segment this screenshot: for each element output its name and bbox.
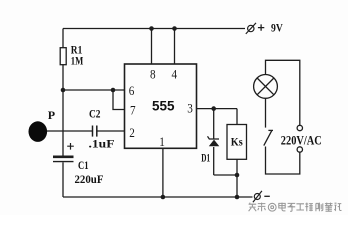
wire left vertical R1 branch xyxy=(62,29,64,49)
node pin8 top rail xyxy=(149,26,154,31)
microphone P xyxy=(29,121,48,142)
svg-text:6: 6 xyxy=(129,83,135,98)
wire pin4 xyxy=(174,29,176,65)
terminal +9V xyxy=(246,21,283,35)
watermark xyxy=(249,203,342,212)
wire D1 bottom lead xyxy=(213,147,215,175)
wire Ks top lead xyxy=(236,109,238,125)
wire lamp top xyxy=(266,60,300,125)
AC source terminal bottom xyxy=(297,147,302,152)
lamp xyxy=(254,75,278,99)
wire lamp bottom to switch xyxy=(265,98,267,127)
wire switch to AC loop bottom xyxy=(266,147,300,175)
node pin6 pin7 junction xyxy=(111,88,116,93)
wire pin3 xyxy=(197,108,238,110)
node R1 bottom junction xyxy=(61,88,66,93)
wire top +9V rail xyxy=(63,28,245,30)
wire C1 to bottom rail xyxy=(62,162,64,197)
resistor R1 xyxy=(60,48,66,65)
wire pin1 xyxy=(162,148,164,197)
relay contact switch xyxy=(264,130,273,145)
wire left vertical to C1 xyxy=(62,90,64,156)
node pin3 D1 junction xyxy=(211,106,216,111)
wire pin8 xyxy=(151,29,153,65)
svg-text:4: 4 xyxy=(172,67,178,82)
svg-text:P: P xyxy=(48,108,55,122)
wire Ks bottom lead xyxy=(236,159,238,175)
wire mic to C2 xyxy=(46,130,93,132)
relay coil Ks xyxy=(227,125,247,160)
node pin1 bottom rail xyxy=(161,195,166,200)
wire bottom rail xyxy=(63,196,253,198)
svg-text:C1: C1 xyxy=(78,158,89,172)
capacitor C2 xyxy=(93,126,97,137)
wire C2 to pin2 xyxy=(97,130,125,132)
svg-text:Ks: Ks xyxy=(231,135,243,149)
capacitor C1 xyxy=(53,157,74,162)
svg-text:C2: C2 xyxy=(89,106,101,120)
svg-text:555: 555 xyxy=(152,99,175,114)
AC source terminal top xyxy=(297,125,302,130)
svg-text:1: 1 xyxy=(159,134,165,149)
IC U1 555 timer xyxy=(125,64,197,148)
wire R1 bottom lead xyxy=(62,65,64,91)
node Ks bottom rail junction xyxy=(235,195,240,200)
svg-text:8: 8 xyxy=(150,67,156,82)
svg-text:220uF: 220uF xyxy=(75,172,104,186)
svg-text:2: 2 xyxy=(129,125,135,140)
wire pin6-pin7 link xyxy=(113,90,125,110)
terminal minus xyxy=(253,191,270,202)
node D1 Ks bottom junction xyxy=(235,173,240,178)
node pin4 top rail xyxy=(172,26,177,31)
svg-text:3: 3 xyxy=(187,101,193,116)
wire pin6 xyxy=(63,89,125,91)
svg-text:D1: D1 xyxy=(201,150,210,164)
diode D1 xyxy=(201,136,219,164)
svg-text:1M: 1M xyxy=(71,53,84,67)
wire D1 Ks bottom link xyxy=(214,174,237,176)
svg-text:220V/AC: 220V/AC xyxy=(281,133,322,148)
svg-text:.1uF: .1uF xyxy=(89,136,115,150)
svg-text:7: 7 xyxy=(130,102,136,117)
svg-text:9V: 9V xyxy=(271,21,283,35)
wire Ks to bottom rail xyxy=(236,175,238,197)
wire D1 top lead xyxy=(213,109,215,139)
